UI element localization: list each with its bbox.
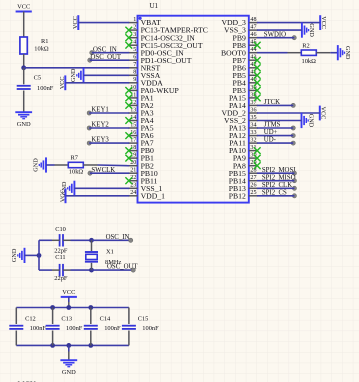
svg-text:100nF: 100nF (66, 325, 83, 332)
svg-text:27: 27 (250, 175, 256, 181)
crystal X1 (85, 249, 122, 266)
svg-text:GND: GND (17, 121, 31, 128)
wire VCC to VDD_1 pin 24 (66, 195, 130, 197)
pin 21 PB10 (left stub + number + name) (129, 168, 158, 178)
net label KEY3 (87, 137, 109, 146)
svg-text:GND: GND (344, 46, 351, 60)
pin 23 VSS_1 (left stub + number + name) (129, 183, 163, 193)
no-connect X on right pin 31 (254, 147, 261, 154)
junction bottom rail C14 (88, 343, 93, 348)
wire crystal top junction to OSC_IN (92, 239, 131, 241)
ground GND (VSS_3, pin 47) (302, 23, 315, 38)
wire R7 to pin 20 PB2 (83, 164, 129, 167)
power VCC (VBAT, pin 1) (72, 15, 79, 30)
svg-text:VDD_1: VDD_1 (141, 191, 165, 200)
designator U1 (150, 2, 159, 10)
svg-text:8MHz: 8MHz (105, 259, 121, 266)
capacitor C13 (46, 316, 83, 333)
pin 3 PC14-OSC32_IN (left stub + number + name) (129, 32, 196, 42)
capacitor C14 leads (90, 308, 92, 346)
wire SPI2_MOSI pin 28 (257, 172, 294, 174)
capacitor C15 leads (128, 308, 130, 346)
no-connect X on right pin 40 (254, 79, 261, 86)
ground GND (cap bank) (60, 360, 77, 376)
no-connect X on right pin 38 (254, 95, 261, 102)
pin 10 PA0-WKUP (left stub + number + name) (129, 85, 179, 95)
wire VDD_3 pin 48 to VCC (257, 22, 320, 24)
svg-text:25: 25 (250, 190, 256, 196)
wire VCC drop to top rail (68, 297, 70, 308)
no-connect X on right pin 45 (254, 42, 261, 49)
svg-text:C13: C13 (61, 316, 72, 323)
power VCC (top-left, above R1) (16, 4, 32, 12)
wire KEY1 to pin 13 (89, 112, 129, 114)
svg-text:GND: GND (62, 369, 76, 376)
net label SPI2_CLK (262, 182, 297, 191)
net label SWDIO (264, 31, 297, 40)
svg-text:C12: C12 (25, 316, 36, 323)
svg-text:32: 32 (250, 138, 256, 144)
svg-text:100nF: 100nF (104, 325, 121, 332)
IC U1 STM32 body (138, 16, 249, 203)
svg-text:47: 47 (250, 25, 256, 31)
pin 26 PB13 (right stub + number + name) (229, 183, 258, 193)
pin 46 PB9 (right stub + number + name) (233, 32, 258, 42)
pin 47 VSS_3 (right stub + number + name) (224, 25, 258, 35)
ground GND (VSS_1, pin 23) (61, 181, 75, 196)
wire node to C5 (23, 68, 25, 85)
pin 7 NRST (left stub + number + name) (129, 62, 161, 72)
pin 41 PB5 (right stub + number + name) (233, 70, 258, 80)
svg-text:U1: U1 (150, 2, 159, 10)
pin 43 PB7 (right stub + number + name) (233, 55, 258, 65)
svg-text:VCC: VCC (62, 289, 75, 296)
wire GND drop from bottom rail (68, 345, 70, 359)
net label OSC_OUT (crystal) (107, 264, 138, 273)
svg-text:34: 34 (250, 122, 256, 128)
junction top rail C14 (88, 305, 93, 310)
svg-text:6: 6 (133, 55, 136, 61)
svg-text:VCC: VCC (320, 107, 327, 120)
resistor R7 (68, 154, 83, 175)
ground GND (below C5) (15, 112, 32, 128)
pin 6 PD1-OSC_OUT (left stub + number + name) (129, 55, 192, 65)
pin 8 VSSA (left stub + number + name) (129, 70, 161, 80)
power VCC (VDD_3, pin 48) (320, 15, 327, 30)
svg-text:10kΩ: 10kΩ (302, 58, 317, 65)
ground GND (right of R2) (338, 45, 351, 60)
wire OSC_IN to pin 5 (92, 52, 130, 54)
svg-text:GND: GND (70, 68, 77, 82)
pin 18 PB0 (left stub + number + name) (129, 145, 155, 155)
net label JTCK (264, 99, 296, 108)
power VCC (VDD_1, pin 24) (59, 188, 66, 203)
svg-text:43: 43 (250, 55, 256, 61)
wire OSC_OUT to pin 6 (90, 59, 130, 61)
no-connect X on left pin 14 (125, 117, 132, 124)
wire SPI2_CLK pin 26 (257, 187, 294, 189)
wire NRST node to pin 7 (24, 67, 130, 69)
ground GND (VSS_2, pin 35) (302, 113, 315, 128)
svg-text:9: 9 (133, 77, 136, 83)
junction node NRST (R1/C5/NRST) (21, 65, 26, 70)
svg-text:R7: R7 (71, 154, 79, 161)
svg-text:VCC: VCC (59, 189, 66, 202)
power VCC (VDDA, pin 9) (59, 75, 66, 90)
pin 27 PB14 (right stub + number + name) (229, 175, 258, 185)
lead C11 left (52, 269, 60, 271)
net label SPI2_MISO (262, 174, 297, 182)
pin 12 PA2 (left stub + number + name) (129, 100, 154, 110)
pin 5 PD0-OSC_IN (left stub + number + name) (129, 47, 185, 57)
svg-text:OSC_IN: OSC_IN (106, 234, 130, 241)
pin 1 VBAT (left stub + number + name) (129, 17, 161, 27)
power VCC (cap bank) (61, 289, 77, 297)
svg-text:10kΩ: 10kΩ (69, 169, 84, 176)
wire R2 to GND (316, 52, 338, 54)
svg-text:GND: GND (11, 248, 18, 262)
pin 17 PA7 (left stub + number + name) (129, 138, 154, 148)
lead C10 left (52, 239, 60, 241)
pin 36 VDD_2 (right stub + number + name) (221, 107, 257, 117)
svg-text:8: 8 (133, 70, 136, 76)
wire UD+ pin 33 (257, 135, 293, 137)
pin 39 PB3 (right stub + number + name) (233, 85, 258, 95)
ground GND (VSSA, pin 8) (70, 68, 84, 83)
svg-text:X1: X1 (106, 249, 114, 256)
pin 20 PB2 (left stub + number + name) (129, 160, 155, 170)
pin 28 PB15 (right stub + number + name) (229, 168, 258, 178)
pin 38 PA15 (right stub + number + name) (229, 92, 258, 102)
no-connect X on left pin 4 (125, 42, 132, 49)
no-connect X on left pin 2 (125, 27, 132, 34)
capacitor C12 (9, 316, 46, 333)
wire GND to VSSA pin 8 (84, 74, 130, 76)
wire SWDIO pin 46 (257, 37, 294, 39)
no-connect X on left pin 10 (125, 87, 132, 94)
pin 9 VDDA (left stub + number + name) (129, 77, 164, 87)
pin 32 PA11 (right stub + number + name) (229, 138, 258, 148)
capacitor C12 leads (15, 308, 17, 346)
no-connect X on left pin 11 (125, 95, 132, 102)
pin 42 PB6 (right stub + number + name) (233, 62, 258, 72)
svg-text:GND: GND (32, 158, 39, 172)
capacitor C15 (122, 316, 159, 333)
svg-text:VCC: VCC (59, 76, 66, 89)
no-connect X on right pin 42 (254, 64, 261, 71)
lead C11 right (63, 269, 71, 271)
wire UD- pin 32 (257, 142, 293, 144)
pin 19 PB1 (left stub + number + name) (129, 153, 155, 163)
wire bottom rail (16, 344, 129, 346)
no-connect X on left pin 19 (125, 155, 132, 162)
svg-text:VCC: VCC (17, 4, 30, 11)
svg-text:C5: C5 (34, 75, 41, 82)
ground GND (crystal block) (11, 248, 25, 263)
svg-text:3: 3 (133, 32, 136, 38)
pin 29 PA8 (right stub + number + name) (233, 160, 258, 170)
svg-text:GND: GND (308, 23, 315, 37)
pin 40 PB4 (right stub + number + name) (233, 77, 258, 87)
wire C10 to crystal top junction (71, 239, 92, 241)
svg-text:21: 21 (130, 168, 136, 174)
pin 15 PA5 (left stub + number + name) (129, 122, 154, 132)
net label SWCLK (88, 167, 115, 175)
svg-text:22pF: 22pF (54, 275, 68, 282)
wire GND to R7 (46, 164, 68, 166)
capacitor C10 (54, 226, 68, 254)
svg-text:2: 2 (133, 25, 136, 31)
wire SWCLK to pin 21 PB10 (90, 172, 129, 174)
pin 30 PA9 (right stub + number + name) (233, 153, 258, 163)
wire VSS_3 pin 47 to GND (257, 29, 302, 31)
net label KEY2 (87, 122, 109, 131)
wire SPI2_CS pin 25 (257, 195, 294, 197)
wire VCC to VDDA pin 9 (65, 82, 129, 84)
wire bottom row rail to C11 (39, 269, 52, 271)
junction top rail C13 (50, 305, 55, 310)
capacitor C14 (84, 316, 121, 333)
junction top rail VCC (66, 305, 71, 310)
svg-text:VCC: VCC (72, 16, 79, 29)
wire VCC to VBAT pin 1 (78, 22, 129, 24)
svg-text:C11: C11 (55, 254, 65, 261)
no-connect X on left pin 18 (125, 147, 132, 154)
power VCC (VDD_2, pin 36) (320, 106, 327, 121)
wire crystal left rail (38, 240, 40, 270)
wire BOOT0 pin 44 to R2 (257, 52, 302, 54)
svg-text:26: 26 (250, 183, 256, 189)
wire GND to crystal rail (25, 254, 40, 256)
no-connect X on right pin 43 (254, 57, 261, 64)
pin 48 VDD_3 (right stub + number + name) (221, 17, 257, 27)
net label UD- (264, 137, 296, 146)
svg-text:R1: R1 (41, 38, 48, 45)
pin 34 PA13 (right stub + number + name) (229, 122, 258, 132)
wire GND to VSS_1 pin 23 (74, 187, 129, 189)
svg-text:24: 24 (130, 190, 136, 196)
no-connect X on left pin 16 (125, 132, 132, 139)
capacitor C5 (17, 75, 54, 92)
svg-text:PB12: PB12 (229, 191, 246, 200)
no-connect X on left pin 12 (125, 102, 132, 109)
wire C5 to GND (23, 91, 25, 113)
pin 4 PC15-OSC32_OUT (left stub + number + name) (129, 40, 203, 50)
svg-text:36: 36 (250, 107, 256, 113)
net label OSC_OUT (left) (88, 54, 122, 62)
lead crystal top (91, 240, 93, 251)
no-connect X on left pin 3 (125, 34, 132, 41)
svg-text:100nF: 100nF (37, 85, 54, 92)
wire KEY2 to pin 15 (89, 127, 129, 129)
pin 14 PA4 (left stub + number + name) (129, 115, 154, 125)
pin 22 PB11 (left stub + number + name) (129, 175, 158, 185)
no-connect X on left pin 22 (125, 177, 132, 184)
svg-text:33: 33 (250, 130, 256, 136)
svg-text:48: 48 (250, 17, 256, 23)
junction crystal bottom (89, 268, 94, 273)
svg-text:7: 7 (133, 62, 136, 68)
pin 25 PB12 (right stub + number + name) (229, 190, 258, 200)
wire VCC to R1 (23, 12, 25, 38)
resistor R2 (301, 43, 316, 66)
partial title text at bottom edge (18, 380, 36, 382)
svg-text:C10: C10 (55, 226, 66, 233)
pin 31 PA10 (right stub + number + name) (229, 145, 258, 155)
lead crystal bottom (91, 263, 93, 270)
lead C10 right (63, 239, 71, 241)
pin 2 PC13-TAMPER-RTC (left stub + number + name) (129, 25, 208, 35)
net label KEY1 (87, 107, 109, 116)
wire crystal bottom junction to OSC_OUT (92, 269, 134, 271)
junction on crystal rail (37, 253, 42, 258)
wire JTCK pin 37 (257, 104, 293, 106)
wire top rail (16, 307, 129, 309)
svg-text:4: 4 (133, 40, 136, 46)
svg-text:C14: C14 (100, 316, 111, 323)
svg-text:GND: GND (308, 114, 315, 128)
wire JTMS pin 34 (257, 127, 293, 129)
junction bottom rail C13 (50, 343, 55, 348)
no-connect X on right pin 39 (254, 87, 261, 94)
pin 13 PA3 (left stub + number + name) (129, 107, 154, 117)
svg-text:5: 5 (133, 47, 136, 53)
svg-text:VCC: VCC (320, 16, 327, 29)
net label JTMS (264, 122, 296, 131)
capacitor C11 (54, 254, 68, 282)
net label UD+ (264, 129, 296, 138)
pin 16 PA6 (left stub + number + name) (129, 130, 154, 140)
wire VDD_2 pin 36 to VCC (257, 112, 320, 114)
wire top row rail to C10 (39, 239, 52, 241)
net label SPI2_CS (262, 189, 297, 198)
svg-text:C15: C15 (138, 316, 149, 323)
capacitor C13 leads (52, 308, 54, 346)
svg-text:35: 35 (250, 115, 256, 121)
net label OSC_IN (left) (90, 46, 117, 55)
svg-text:10kΩ: 10kΩ (34, 46, 49, 53)
ground GND (left of R7) (32, 157, 46, 172)
wire VSS_2 pin 35 to GND (257, 120, 302, 122)
junction bottom rail GND (66, 343, 71, 348)
wire KEY3 to pin 17 (89, 142, 129, 144)
svg-text:100nF: 100nF (30, 325, 47, 332)
junction crystal top (89, 238, 94, 243)
pin 11 PA1 (left stub + number + name) (129, 92, 154, 102)
wire C11 to crystal bottom junction (71, 269, 92, 271)
net label OSC_IN (crystal) (106, 234, 133, 243)
resistor R1 (20, 37, 49, 54)
no-connect X on right pin 29 (254, 162, 261, 169)
pin 24 VDD_1 (left stub + number + name) (129, 190, 166, 200)
pin 35 VSS_2 (right stub + number + name) (224, 115, 258, 125)
svg-text:46: 46 (250, 32, 256, 38)
pin 37 PA14 (right stub + number + name) (229, 100, 258, 110)
wire R1 to node NRST (23, 54, 25, 68)
pin 44 BOOT0 (right stub + number + name) (221, 47, 258, 57)
net label SPI2_MOSI (262, 167, 297, 175)
svg-text:R2: R2 (302, 43, 309, 50)
svg-text:100nF: 100nF (142, 325, 159, 332)
no-connect X on right pin 30 (254, 155, 261, 162)
pin 33 PA12 (right stub + number + name) (229, 130, 258, 140)
no-connect X on right pin 41 (254, 72, 261, 79)
wire SPI2_MISO pin 27 (257, 180, 294, 182)
pin 45 PB8 (right stub + number + name) (233, 40, 258, 50)
svg-text:1: 1 (133, 17, 136, 23)
